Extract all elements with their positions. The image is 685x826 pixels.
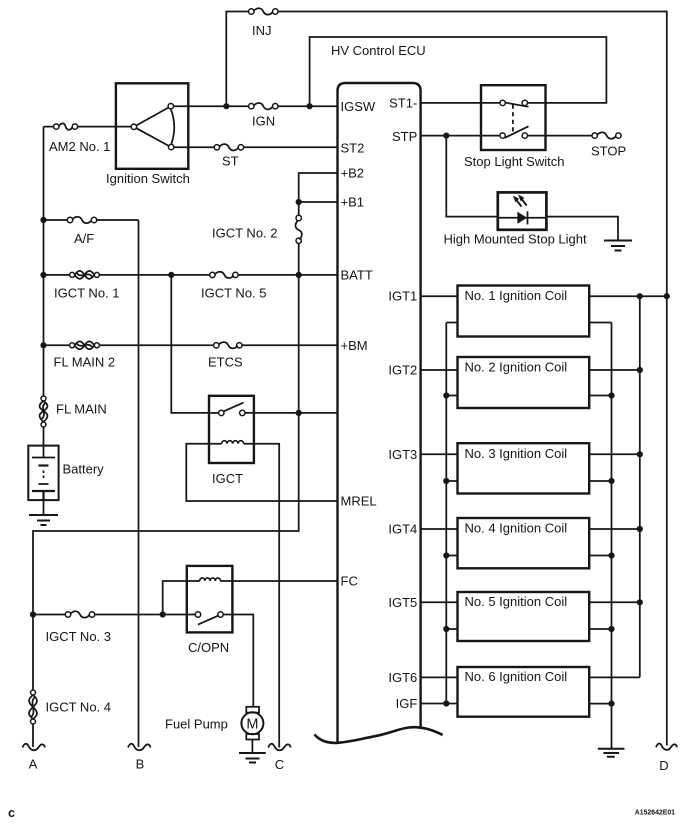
svg-text:+B1: +B1 <box>341 195 365 210</box>
svg-text:Battery: Battery <box>63 462 105 477</box>
svg-text:HV Control ECU: HV Control ECU <box>331 43 426 58</box>
svg-text:IGT1: IGT1 <box>388 289 417 304</box>
svg-text:IGCT: IGCT <box>212 471 243 486</box>
svg-text:ST1-: ST1- <box>389 95 417 110</box>
svg-text:IGT3: IGT3 <box>388 447 417 462</box>
svg-text:IGF: IGF <box>396 696 418 711</box>
svg-text:ST: ST <box>222 154 239 169</box>
svg-text:M: M <box>246 717 258 733</box>
svg-text:STP: STP <box>392 129 417 144</box>
svg-text:+B2: +B2 <box>341 166 365 181</box>
svg-text:B: B <box>136 757 145 772</box>
svg-text:IGT4: IGT4 <box>388 522 417 537</box>
svg-text:IGCT No. 2: IGCT No. 2 <box>212 226 278 241</box>
svg-text:D: D <box>659 758 668 773</box>
svg-text:+BM: +BM <box>341 338 368 353</box>
svg-text:Stop Light Switch: Stop Light Switch <box>464 154 564 169</box>
svg-text:IGCT No. 4: IGCT No. 4 <box>46 699 112 714</box>
svg-text:Ignition Switch: Ignition Switch <box>106 171 190 186</box>
svg-text:MREL: MREL <box>341 494 377 509</box>
svg-text:No. 1 Ignition Coil: No. 1 Ignition Coil <box>465 288 568 303</box>
svg-text:IGSW: IGSW <box>341 99 376 114</box>
svg-text:STOP: STOP <box>591 144 626 159</box>
svg-text:IGT5: IGT5 <box>388 595 417 610</box>
svg-text:INJ: INJ <box>252 23 272 38</box>
svg-text:IGCT No. 5: IGCT No. 5 <box>201 286 267 301</box>
svg-text:High Mounted Stop Light: High Mounted Stop Light <box>444 232 587 247</box>
svg-text:C/OPN: C/OPN <box>188 640 229 655</box>
svg-text:No. 2 Ignition Coil: No. 2 Ignition Coil <box>465 360 568 375</box>
svg-text:ST2: ST2 <box>341 140 365 155</box>
svg-text:No. 3 Ignition Coil: No. 3 Ignition Coil <box>465 446 568 461</box>
svg-text:IGCT No. 3: IGCT No. 3 <box>46 629 112 644</box>
svg-text:A/F: A/F <box>74 231 94 246</box>
svg-text:IGN: IGN <box>252 114 275 129</box>
svg-text:IGCT No. 1: IGCT No. 1 <box>54 286 120 301</box>
svg-text:A: A <box>29 757 38 772</box>
svg-text:FC: FC <box>341 574 358 589</box>
svg-text:No. 4 Ignition Coil: No. 4 Ignition Coil <box>465 521 568 536</box>
svg-text:BATT: BATT <box>341 267 373 282</box>
svg-text:ETCS: ETCS <box>208 355 243 370</box>
svg-text:IGT2: IGT2 <box>388 363 417 378</box>
svg-text:c: c <box>8 806 15 820</box>
svg-text:FL MAIN: FL MAIN <box>56 402 107 417</box>
svg-text:FL MAIN 2: FL MAIN 2 <box>54 355 116 370</box>
svg-text:C: C <box>275 757 284 772</box>
svg-text:No. 5 Ignition Coil: No. 5 Ignition Coil <box>465 594 568 609</box>
svg-text:A152642E01: A152642E01 <box>635 810 675 817</box>
svg-text:AM2 No. 1: AM2 No. 1 <box>49 139 110 154</box>
svg-text:Fuel Pump: Fuel Pump <box>165 717 228 732</box>
svg-text:IGT6: IGT6 <box>388 670 417 685</box>
svg-text:No. 6 Ignition Coil: No. 6 Ignition Coil <box>465 669 568 684</box>
